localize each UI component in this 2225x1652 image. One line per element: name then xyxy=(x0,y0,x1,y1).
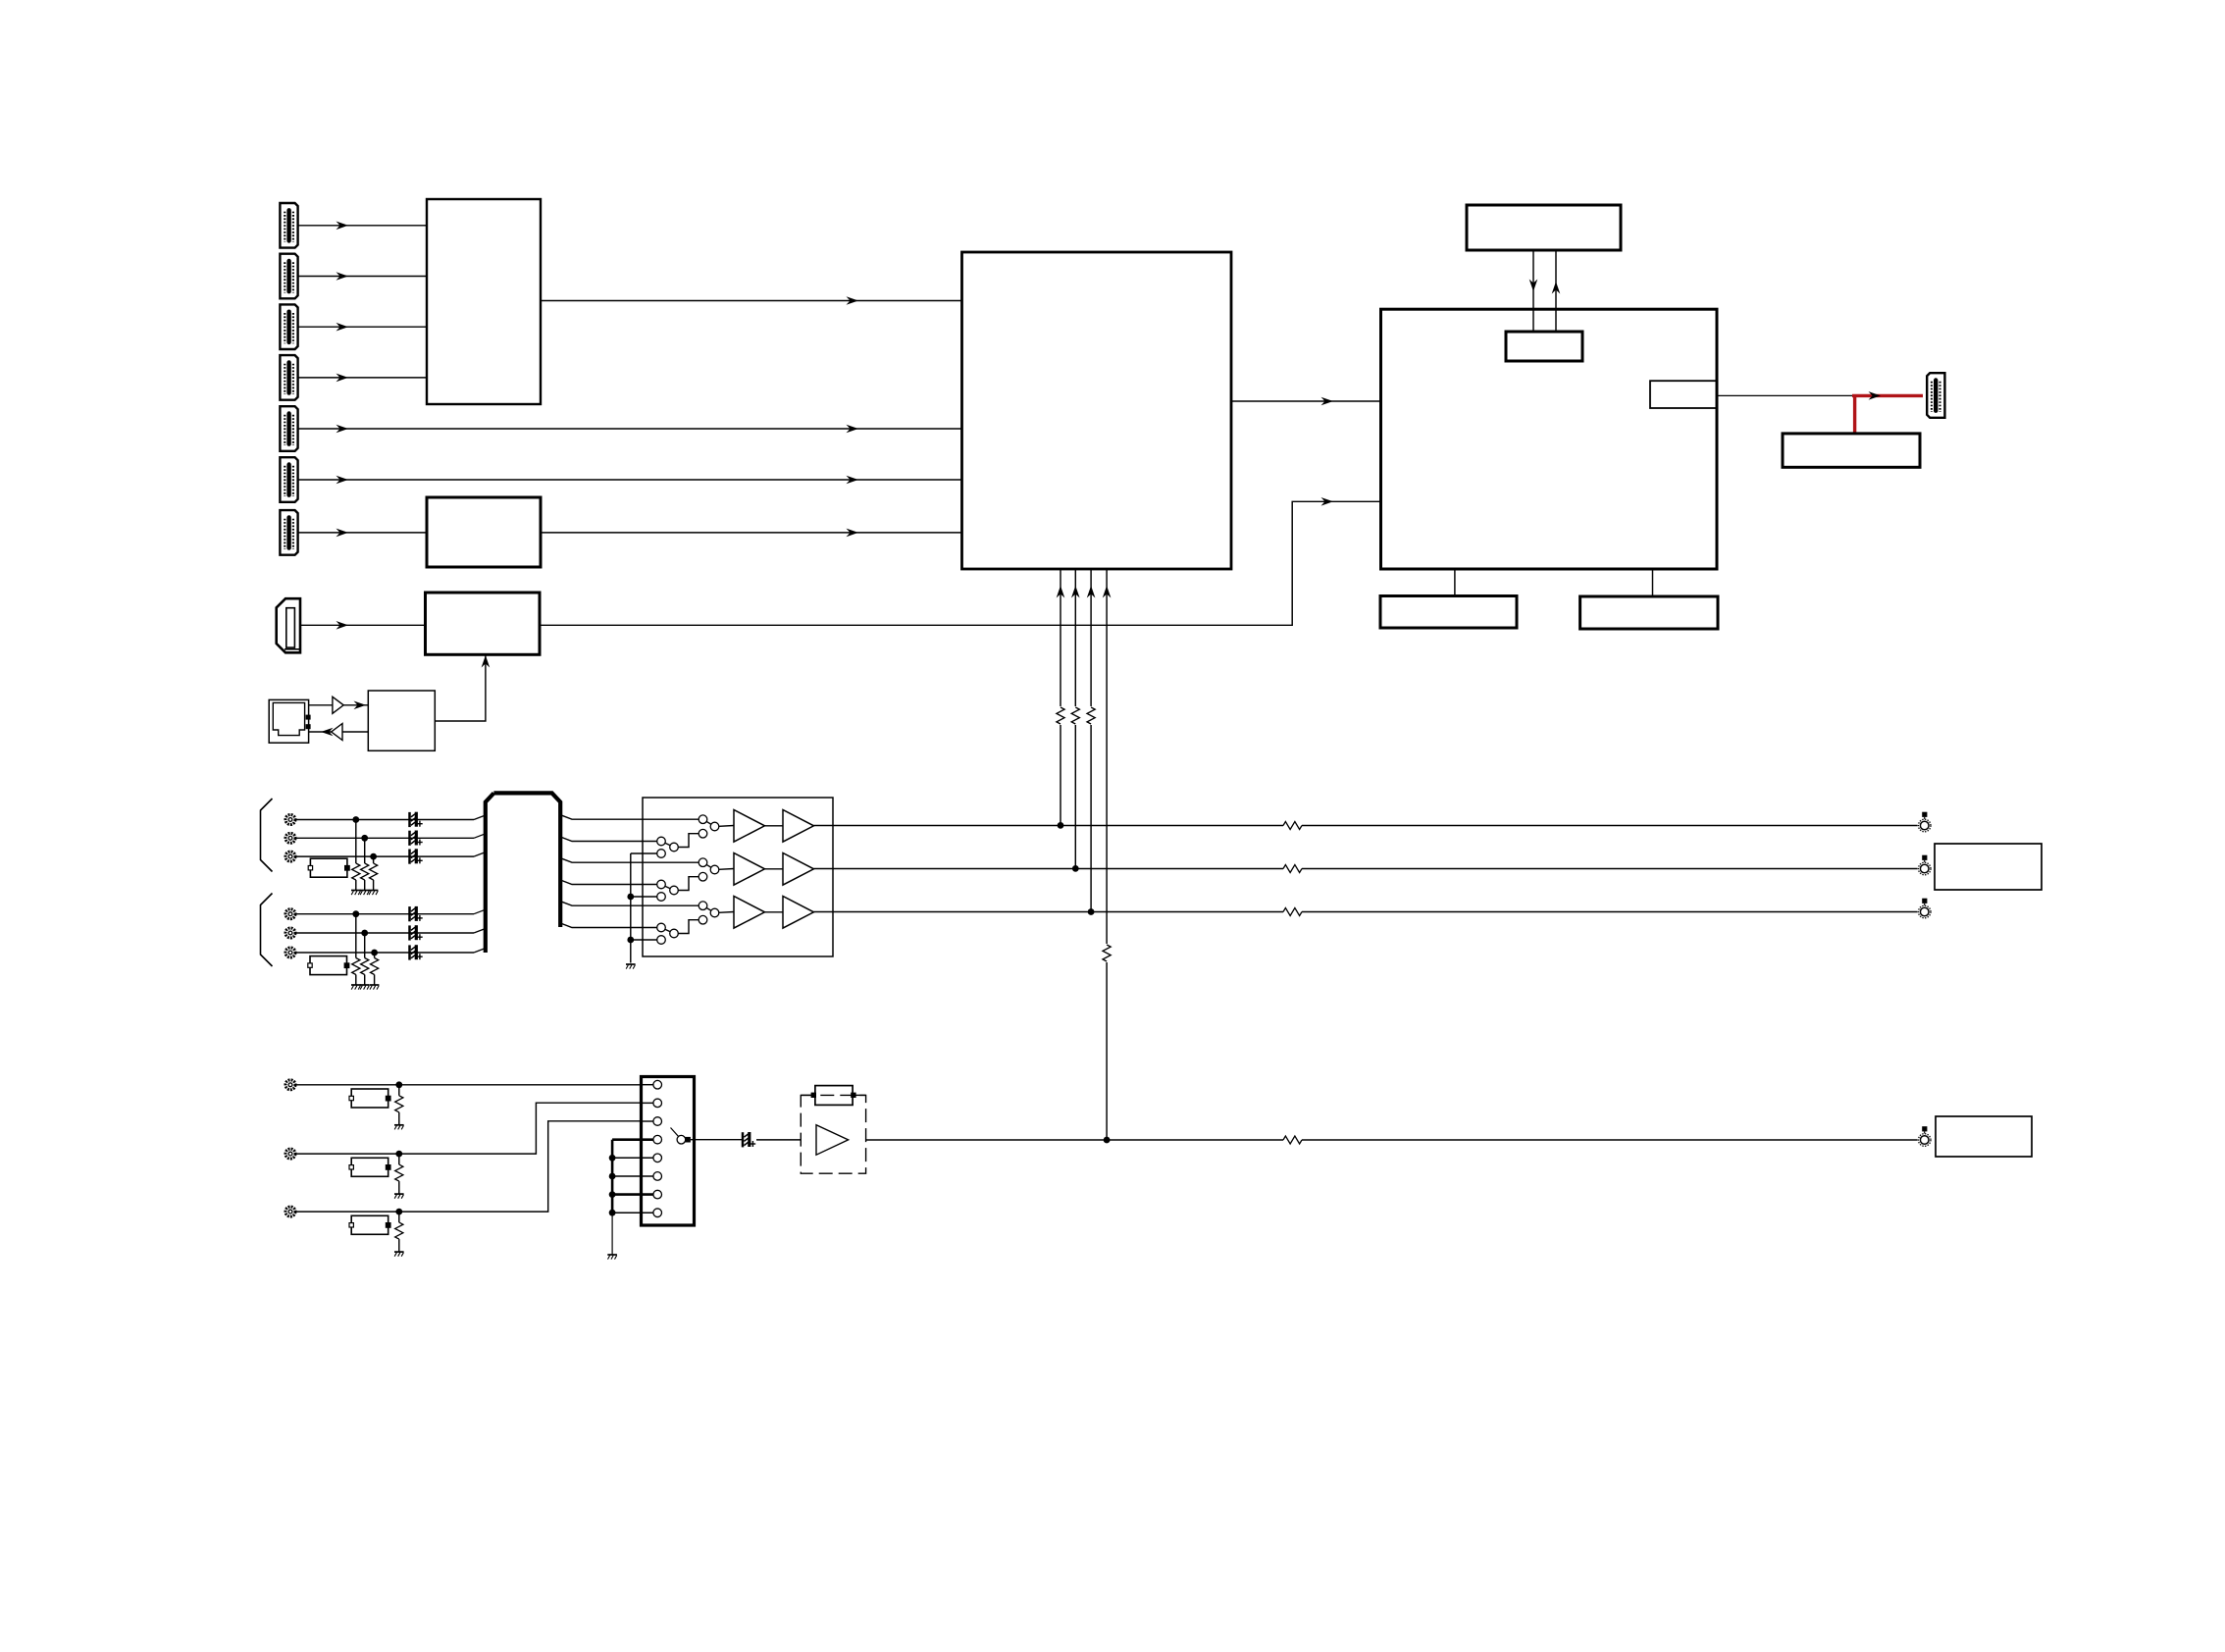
HDMI input connector J1 xyxy=(280,203,297,248)
bead a4 xyxy=(743,1132,755,1147)
bus exit main ch2 xyxy=(560,858,699,863)
filter FB2 xyxy=(308,956,350,975)
contact pin 7 xyxy=(653,1190,662,1199)
buffer A21 xyxy=(734,853,765,886)
component jack J12 xyxy=(285,833,295,843)
bus exit alt ch3 xyxy=(560,923,657,928)
junction c2 xyxy=(361,835,368,842)
resistor R2 xyxy=(1070,706,1080,725)
buffer A31 xyxy=(734,897,765,929)
wire S3a out xyxy=(719,911,734,914)
HDMI input connector J7 xyxy=(280,510,297,555)
wire video out row 3 xyxy=(814,911,1918,913)
resistor Ra2 xyxy=(395,1154,403,1194)
switch S3a xyxy=(699,902,719,924)
resistor Rc3 xyxy=(370,856,378,890)
HDMI switch U1 xyxy=(427,199,541,404)
leg U6 to U8 xyxy=(1454,569,1456,596)
resistor R4 xyxy=(1102,944,1112,962)
audio output jack J44 xyxy=(1918,1126,1931,1146)
wire U6 output xyxy=(1717,394,1854,396)
buffer A32 xyxy=(783,897,814,929)
wire S3a throw xyxy=(678,920,699,934)
bead c2 xyxy=(410,831,423,846)
wire component2 to bus xyxy=(295,834,486,839)
leg U6 to U9 xyxy=(1652,569,1654,596)
component jack J13 xyxy=(285,852,295,861)
level shifter U10 xyxy=(1783,434,1920,467)
bus exit main ch1 xyxy=(560,815,699,820)
HDMI input connector J3 xyxy=(280,304,297,349)
HDMI input connector J5 xyxy=(280,406,297,451)
memory U7 xyxy=(1467,205,1621,250)
wire U3 pin2 down xyxy=(1071,569,1080,868)
junction d1 xyxy=(352,910,359,917)
junction a2 xyxy=(395,1151,402,1158)
resistor Rd2 xyxy=(361,933,369,985)
bead c3 xyxy=(410,849,423,863)
contact pin 3 xyxy=(642,1117,662,1126)
wire HDMI1 to U1 xyxy=(299,222,428,231)
wire U5 to U4 xyxy=(435,655,490,721)
resistor R1 xyxy=(1056,706,1065,725)
wire S2a throw xyxy=(678,877,699,891)
ground bus W3 xyxy=(609,1140,653,1255)
wire component1 to bus xyxy=(295,815,486,820)
output jack J32 xyxy=(1918,855,1931,875)
filter FB5 xyxy=(349,1215,391,1234)
junction pin4 xyxy=(1104,1137,1111,1144)
junction pin1 xyxy=(1058,822,1064,829)
video processor U3 xyxy=(962,252,1232,569)
output jack J33 xyxy=(1918,899,1931,918)
buffer from U5 xyxy=(309,724,369,741)
wire audio1 xyxy=(295,1084,642,1086)
ground U13 xyxy=(607,1255,617,1260)
wire HDMI2 to U1 xyxy=(299,272,428,281)
output label box U12 xyxy=(1935,844,2042,890)
component jack J21 xyxy=(285,909,295,919)
wire audio out xyxy=(691,1139,1918,1141)
switch S2b xyxy=(657,880,679,895)
audio amp U14 xyxy=(801,1095,865,1173)
bracket group1 xyxy=(261,799,273,872)
resistor Rv2 xyxy=(1283,865,1302,873)
ground U11 xyxy=(626,964,636,969)
bus exit main ch3 xyxy=(560,902,699,906)
buffer to U5 xyxy=(309,697,369,713)
wire U1 output to U3 xyxy=(541,296,962,305)
ground a2 xyxy=(394,1194,404,1199)
wire J8 to U4 xyxy=(301,621,426,630)
service jack J9 xyxy=(269,699,310,743)
bead d1 xyxy=(410,906,423,921)
contact pin 2 xyxy=(642,1099,662,1108)
selector switch S4 xyxy=(671,1128,691,1144)
main SoC U6 xyxy=(1381,309,1718,569)
junction c1 xyxy=(352,816,359,823)
audio jack J42 xyxy=(285,1149,295,1159)
cable bundle W1 xyxy=(486,793,560,953)
ground contact ch3 xyxy=(631,936,666,945)
bead d2 xyxy=(410,925,423,940)
resistor R3 xyxy=(1086,706,1096,725)
resistor Rd3 xyxy=(371,953,379,985)
junction d2 xyxy=(361,930,368,937)
bus exit alt ch2 xyxy=(560,880,657,885)
ground a3 xyxy=(394,1252,404,1257)
filter FB3 xyxy=(349,1089,391,1108)
bead d3 xyxy=(410,945,423,959)
wire HDMI5 to U3 xyxy=(299,425,962,434)
ground c3 xyxy=(369,891,379,896)
resistor Rc2 xyxy=(361,838,369,890)
red wire net xyxy=(1852,391,1923,434)
junction a1 xyxy=(395,1081,402,1088)
audio label box U15 xyxy=(1936,1116,2032,1157)
junction a3 xyxy=(395,1209,402,1215)
ground c2 xyxy=(360,891,370,896)
wire HDMI6 to U3 xyxy=(299,476,962,485)
junction pin2 xyxy=(1072,865,1079,872)
output block U6b xyxy=(1650,381,1717,408)
bus exit alt ch1 xyxy=(560,837,657,842)
wire U3 output to U6 xyxy=(1231,397,1381,406)
memory U9 xyxy=(1580,596,1718,629)
HDMI output connector J10 xyxy=(1927,373,1944,418)
feedback network U14b xyxy=(801,1086,865,1106)
contact pin 8 xyxy=(653,1209,662,1217)
resistor Rc1 xyxy=(352,820,360,891)
switch S1a xyxy=(699,815,719,838)
ground d1 xyxy=(351,985,361,990)
wire U7-U6 down xyxy=(1529,250,1538,332)
switch S3b xyxy=(657,923,679,938)
wire component2-3 to bus xyxy=(295,949,486,954)
wire video out row 2 xyxy=(814,868,1918,870)
memory U8 xyxy=(1380,596,1517,629)
filter FB1 xyxy=(308,858,350,877)
contact pin 6 xyxy=(653,1172,662,1181)
wire A21-A22 xyxy=(765,868,784,870)
bead c1 xyxy=(410,812,423,827)
ground contact ch1 xyxy=(631,850,666,858)
resistor Ra3 xyxy=(395,1212,403,1252)
wire component3 to bus xyxy=(295,852,486,857)
AV decoder U4 xyxy=(426,593,541,654)
video buffer box U11 xyxy=(643,798,833,956)
ground a1 xyxy=(394,1125,404,1130)
wire U7-U6 up xyxy=(1552,250,1561,332)
selector box U13 xyxy=(642,1077,695,1226)
wire HDMI7 to U2 xyxy=(299,529,428,538)
wire S1a out xyxy=(719,825,734,828)
audio jack J41 xyxy=(285,1080,295,1090)
HDMI input connector J4 xyxy=(280,355,297,400)
audio jack J43 xyxy=(285,1207,295,1216)
wire U3 pin1 down xyxy=(1057,569,1065,825)
buffer A11 xyxy=(734,810,765,843)
wire A11-A12 xyxy=(765,825,784,827)
filter FB4 xyxy=(349,1158,391,1176)
wire video out row 1 xyxy=(814,825,1918,827)
wire component2-1 to bus xyxy=(295,909,486,914)
ground contact ch2 xyxy=(631,893,666,902)
resistor Rd1 xyxy=(352,914,360,985)
wire U3 pin4 down xyxy=(1103,569,1112,1140)
control box U5 xyxy=(368,691,435,750)
resistor Rv1 xyxy=(1283,822,1302,830)
buffer A22 xyxy=(783,853,814,886)
output jack J31 xyxy=(1918,812,1931,832)
resistor Ra4 xyxy=(1283,1136,1302,1144)
wire S1a throw xyxy=(678,834,699,848)
HDMI input connector J6 xyxy=(280,457,297,502)
AV input connector J8 xyxy=(277,598,300,652)
wire audio3 xyxy=(295,1121,642,1212)
wire S2a out xyxy=(719,868,734,871)
HDMI input connector J2 xyxy=(280,254,297,299)
resistor Rv3 xyxy=(1283,908,1302,916)
wire U4 output to U6 xyxy=(540,497,1381,625)
bracket group2 xyxy=(261,894,273,967)
junction d3 xyxy=(371,950,378,956)
ground d2 xyxy=(360,985,370,990)
junction c3 xyxy=(370,853,377,860)
component jack J22 xyxy=(285,928,295,938)
ground riser W2 xyxy=(627,853,634,963)
resistor Ra1 xyxy=(395,1085,403,1125)
wire HDMI4 to U1 xyxy=(299,374,428,383)
contact pin 5 xyxy=(653,1154,662,1162)
contact pin 4 xyxy=(642,1135,662,1144)
wire component2-2 to bus xyxy=(295,929,486,934)
ground c1 xyxy=(351,891,361,896)
interface block U6a xyxy=(1506,332,1582,361)
component jack J11 xyxy=(285,815,295,825)
switch S1b xyxy=(657,837,679,852)
switch S2a xyxy=(699,858,719,881)
buffer A12 xyxy=(783,810,814,843)
HDMI repeater U2 xyxy=(427,497,541,567)
component jack J23 xyxy=(285,948,295,957)
contact pin 1 xyxy=(642,1080,662,1089)
ground d3 xyxy=(370,985,380,990)
wire A31-A32 xyxy=(765,911,784,913)
wire audio2 xyxy=(295,1103,642,1154)
junction pin3 xyxy=(1088,908,1095,915)
wire U2 output to U3 xyxy=(541,529,962,538)
wire U3 pin3 down xyxy=(1087,569,1096,912)
wire HDMI3 to U1 xyxy=(299,323,428,332)
